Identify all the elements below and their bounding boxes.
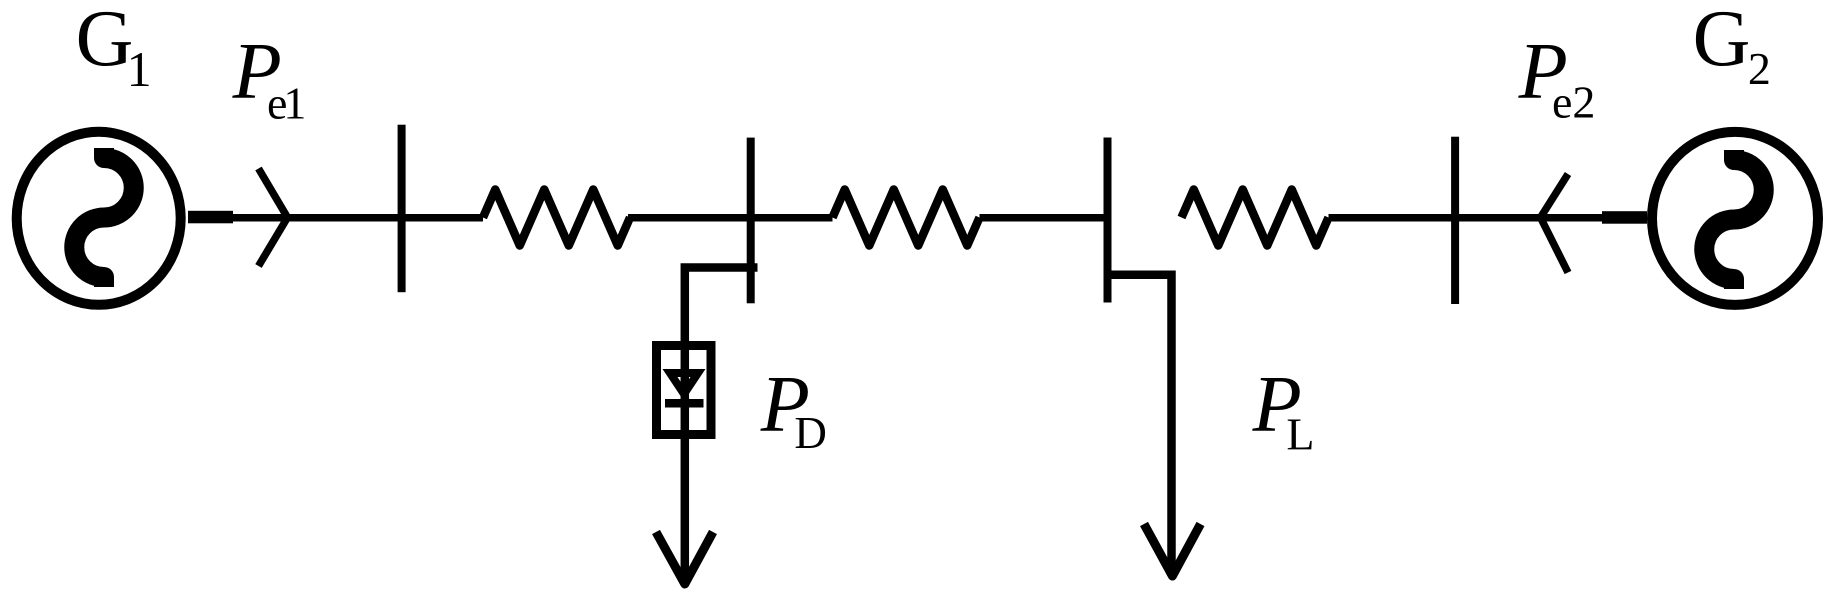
label Pe1 [232,27,307,129]
label G2 [1693,0,1771,94]
wire: stub into G2 [1602,211,1647,224]
power flow arrow Pe1 [259,169,288,267]
label G1 [76,0,152,97]
svg-text:1: 1 [127,41,152,97]
svg-text:L: L [1286,408,1314,459]
resistor R2 (line section 2) [833,190,980,246]
bus B1 [398,125,406,293]
label PL [1252,359,1315,459]
bus B4 [1451,137,1459,304]
converter box [657,346,712,435]
wire: main line G1 to bus B1 [232,214,483,222]
svg-text:e2: e2 [1552,76,1595,127]
wire: resistor R2 to bus B3 [980,214,1108,222]
bus B2 [747,138,755,304]
svg-text:G: G [1693,0,1751,83]
wire: stub from G1 [188,211,233,224]
wire: bus B1 resistor to bus B2 [628,214,752,222]
svg-text:G: G [76,0,134,83]
load arrow PD [656,532,713,584]
wire: bus B2 to resistor R2 [752,214,833,222]
label PD [760,359,827,458]
load arrow PL [1144,524,1201,576]
svg-text:D: D [794,408,827,458]
wire: branch elbow from bus B3 to load [1108,275,1172,576]
svg-text:2: 2 [1748,43,1771,94]
label Pe2 [1518,26,1596,127]
wire: resistor R3 to bus B4 [1329,214,1459,222]
wire: branch elbow from bus B2 to DC tap [685,268,758,585]
bus B3 [1104,138,1112,303]
svg-text:e1: e1 [267,77,306,128]
power flow arrow Pe2 [1541,174,1569,273]
resistor R1 (line section 1) [483,190,630,246]
wire: bus B4 to G2 stub [1459,214,1602,222]
diode D (triangle and cathode bar) [665,373,704,403]
generator G2 [1652,132,1818,305]
resistor R3 (line section 3) [1182,190,1329,246]
generator G1 [17,132,181,305]
